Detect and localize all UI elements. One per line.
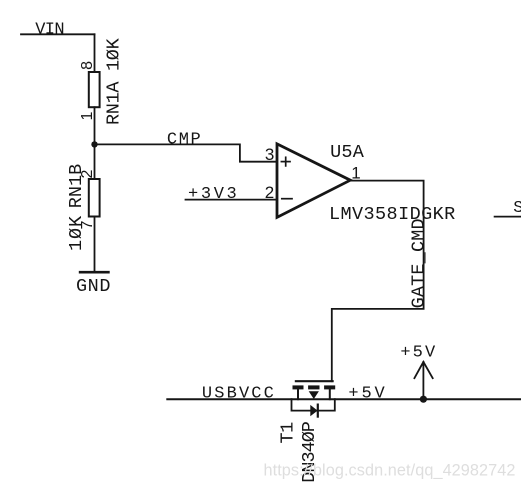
transistor T1 body-diode triangle	[310, 405, 317, 416]
junction node +5V rail	[420, 396, 427, 403]
svg-text:1: 1	[351, 164, 360, 183]
transistor T1 body-diode cathode bar	[317, 405, 319, 417]
power symbol +5V arrow head	[414, 362, 432, 378]
svg-text:+5V: +5V	[348, 384, 387, 403]
transistor T1 source stub	[297, 389, 299, 399]
transistor T1 bulk arrow	[309, 391, 319, 399]
wire USBVCC net rail	[167, 398, 521, 400]
svg-text:USBVCC: USBVCC	[202, 384, 276, 403]
transistor T1 body-diode loop	[292, 399, 335, 410]
svg-text:https://blog.csdn.net/qq_42982: https://blog.csdn.net/qq_42982742	[264, 461, 516, 479]
svg-text:U5A: U5A	[330, 142, 365, 163]
svg-text:T1: T1	[278, 422, 299, 444]
wire VIN to RN1A pin 8	[94, 34, 96, 72]
transistor T1 channel bar middle	[308, 385, 319, 389]
transistor T1 channel bar source	[293, 385, 304, 389]
svg-text:CMP: CMP	[167, 131, 202, 150]
svg-text:8: 8	[79, 61, 96, 70]
svg-text:S: S	[513, 199, 521, 218]
wire net stub right edge	[495, 216, 521, 218]
svg-text:+5V: +5V	[400, 344, 437, 363]
svg-text:VIN: VIN	[35, 20, 64, 39]
power symbol +5V arrow stem	[422, 362, 424, 399]
ground bar	[80, 271, 108, 274]
transistor T1 gate plate	[296, 380, 333, 382]
svg-text:RN1B: RN1B	[66, 164, 87, 208]
op-amp minus input symbol	[282, 198, 292, 200]
transistor T1 drain stub	[329, 389, 331, 399]
op-amp plus input symbol	[281, 157, 290, 166]
resistor RN1B body	[89, 179, 100, 217]
svg-text:1ØK: 1ØK	[66, 215, 87, 251]
resistor RN1A body	[89, 72, 100, 107]
transistor T1 channel bar drain	[324, 385, 335, 389]
svg-text:2: 2	[265, 183, 274, 202]
svg-text:+3V3: +3V3	[188, 185, 239, 204]
svg-text:RN1A 1ØK: RN1A 1ØK	[104, 37, 125, 125]
svg-text:3: 3	[265, 145, 274, 164]
svg-text:GND: GND	[76, 276, 111, 297]
wire node CMP to op-amp pin 3	[95, 144, 277, 161]
wire op-amp output GATE_CMD to transistor gate	[332, 181, 424, 382]
wire +3V3 to op-amp pin 2	[186, 199, 277, 201]
op-amp U5A triangle	[277, 144, 350, 218]
wire RN1B pin 7 to ground	[94, 217, 96, 272]
wire RN1A pin 1 to node CMP	[94, 107, 96, 179]
junction node CMP	[91, 141, 97, 147]
svg-text:LMV358IDGKR: LMV358IDGKR	[329, 204, 456, 225]
svg-text:GATE_CMD: GATE_CMD	[409, 218, 430, 308]
wire VIN net stub	[21, 33, 95, 35]
svg-text:1: 1	[79, 112, 96, 121]
